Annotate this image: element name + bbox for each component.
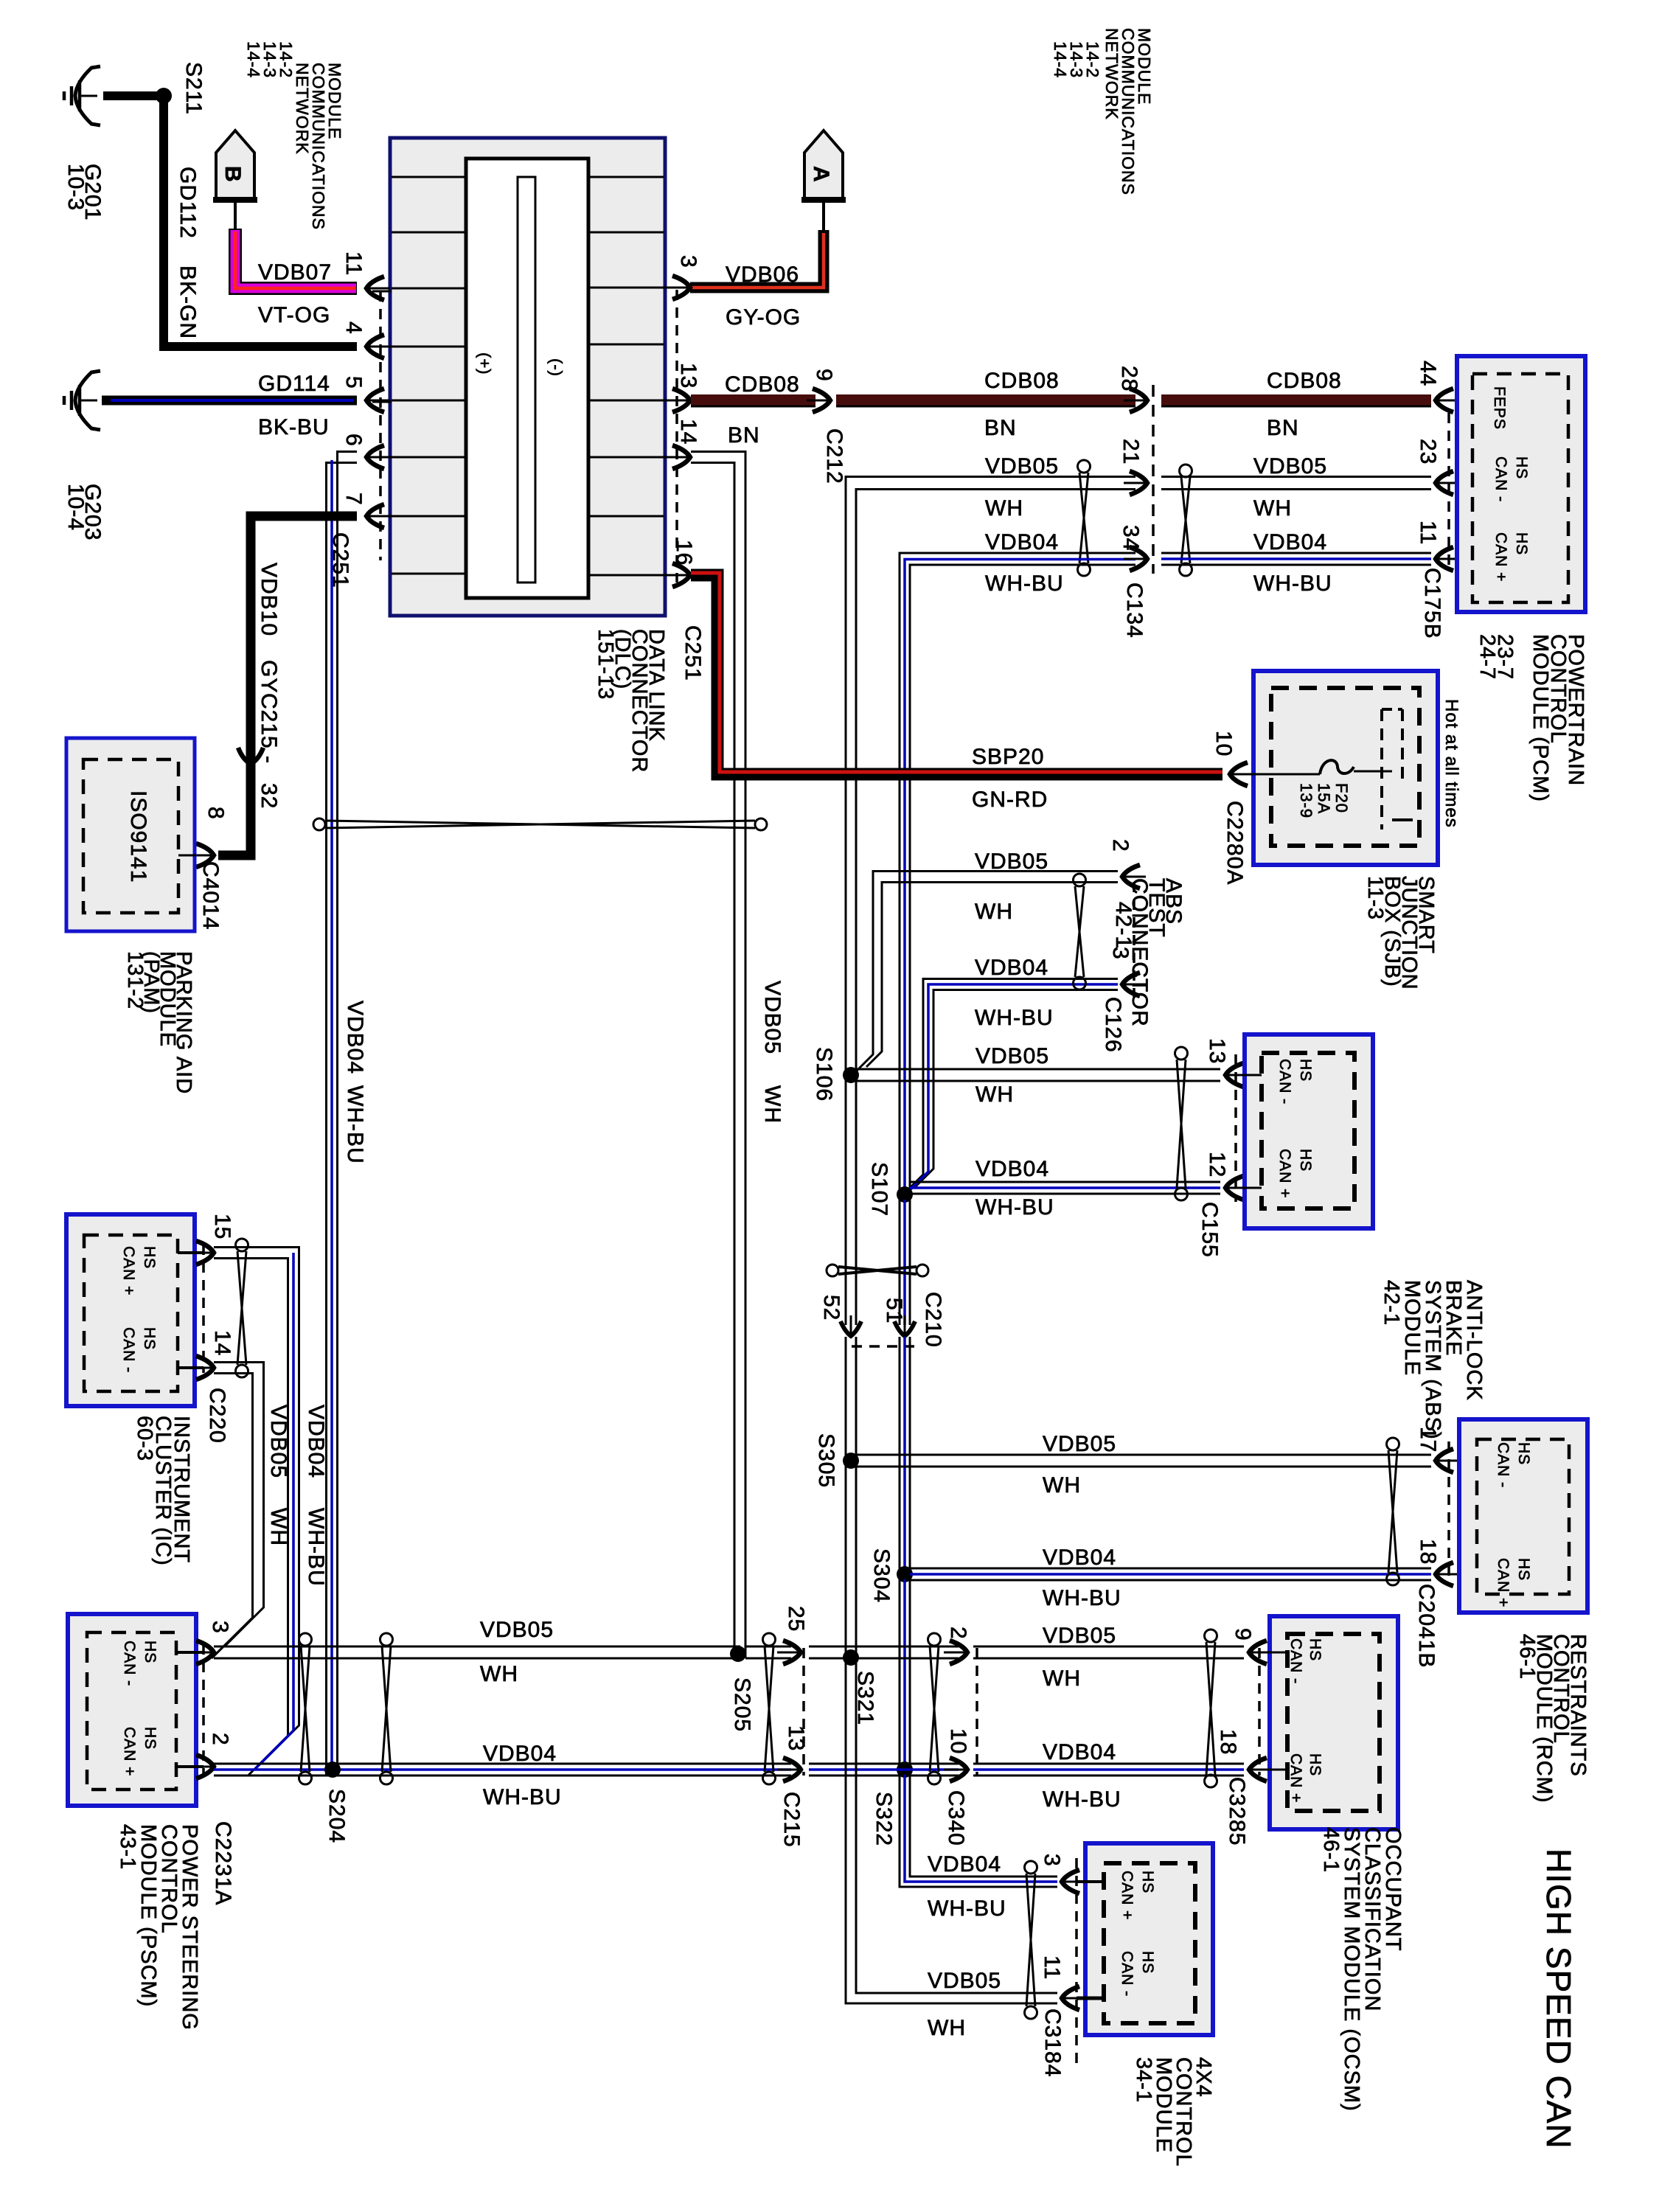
C155 dashed line: [1234, 1054, 1237, 1202]
svg-text:NETWORK: NETWORK: [1102, 28, 1121, 120]
PCM pin 11 arrow: [1436, 547, 1453, 571]
svg-text:HS: HS: [1139, 1871, 1156, 1893]
svg-text:(+): (+): [476, 352, 494, 375]
PSCM pin 3 arrow: [196, 1641, 214, 1664]
DLC internal pin rungs right: [588, 176, 664, 178]
DLC pin 14 arrow: [672, 445, 690, 469]
PCM pin 44 arrow: [1436, 389, 1453, 412]
DLC internal inner slot: [518, 177, 535, 582]
svg-text:VDB05: VDB05: [1043, 1624, 1116, 1648]
svg-text:WH-BU: WH-BU: [1043, 1586, 1121, 1610]
IC bowtie C220: [236, 1239, 248, 1251]
svg-text:HS: HS: [141, 1327, 158, 1350]
wire VDB04 WH-BU trunk DLC pin6 down to S204: [338, 452, 358, 1764]
ISO9141 pin stub: [178, 855, 196, 857]
svg-text:44: 44: [1416, 361, 1440, 386]
C210 pin 52 arrow: [841, 1321, 861, 1336]
svg-text:151-13: 151-13: [594, 629, 617, 700]
svg-text:13: 13: [1205, 1038, 1229, 1064]
svg-text:CAN -: CAN -: [1287, 1638, 1304, 1684]
C126 pin 3 arrow: [1122, 973, 1140, 996]
wire VDB05 WH to C126 pin 2: [856, 872, 1118, 1072]
wire VDB05 WH S321 down to 4x4 pin 11: [846, 1663, 1057, 2003]
svg-text:VT-OG: VT-OG: [258, 303, 330, 327]
svg-text:14: 14: [676, 419, 700, 445]
svg-text:8: 8: [204, 807, 228, 820]
svg-text:WH-BU: WH-BU: [975, 1195, 1054, 1220]
svg-text:S322: S322: [872, 1792, 896, 1846]
wire VDB05 WH S106 to C155 pin 13: [856, 1068, 1220, 1071]
svg-text:Hot at all times: Hot at all times: [1441, 699, 1461, 828]
svg-text:32: 32: [257, 783, 281, 809]
svg-text:CAN +: CAN +: [1119, 1871, 1135, 1920]
svg-text:WH: WH: [985, 496, 1023, 521]
svg-text:11: 11: [341, 251, 366, 276]
wire VDB05 trunk C S305 to S321: [845, 1466, 847, 1652]
svg-text:46-1: 46-1: [1319, 1827, 1343, 1873]
svg-text:FEPS: FEPS: [1491, 386, 1508, 430]
IC pin 15 arrow: [196, 1241, 214, 1265]
wire ground to S211: [103, 91, 164, 100]
svg-text:15: 15: [210, 1214, 234, 1239]
RCM dashed line C2041B: [1447, 1441, 1450, 1582]
PCM pin 44 stub: [1446, 400, 1472, 402]
inline connector C215-32 on VDB10: [238, 748, 263, 764]
svg-text:WH-BU: WH-BU: [343, 1085, 367, 1164]
IC pin 14 arrow: [196, 1356, 214, 1380]
wire VDB07 VT-OG to DLC pin 11: [235, 229, 357, 288]
svg-text:131-2: 131-2: [123, 951, 147, 1009]
PCM pin 23 stub: [1446, 482, 1472, 484]
C340 pin 10 arrow: [950, 1758, 967, 1781]
PSCM dashed line C2231A: [202, 1644, 205, 1775]
connector B pentagon: [216, 131, 254, 200]
C210 pin 51 arrow: [894, 1321, 915, 1336]
svg-text:(-): (-): [547, 358, 566, 377]
wire VDB05 WH trunk DLC pin14 down to S205: [691, 452, 745, 1659]
svg-text:S106: S106: [812, 1047, 836, 1102]
SJB inner dashed box: [1271, 688, 1419, 846]
4x4 dashed line C3184: [1075, 1858, 1078, 2065]
svg-text:51: 51: [882, 1298, 906, 1324]
C215 dashed line: [802, 1648, 805, 1775]
svg-text:WH: WH: [975, 1082, 1014, 1107]
svg-text:25: 25: [784, 1606, 808, 1632]
DLC pin 4 arrow: [366, 335, 384, 358]
OCSM pin 9 stub: [1259, 1652, 1287, 1654]
svg-text:GY: GY: [257, 660, 281, 693]
svg-text:ISO9141: ISO9141: [126, 790, 150, 883]
svg-text:CAN +: CAN +: [121, 1727, 138, 1776]
wire VDB04 WH-BU C215 to S322 to C340: [809, 1763, 959, 1765]
node S305: [843, 1453, 859, 1469]
DLC internal slot bar: [466, 159, 588, 598]
svg-text:C215: C215: [779, 1792, 804, 1848]
svg-text:C210: C210: [921, 1292, 945, 1348]
svg-text:10: 10: [946, 1728, 970, 1754]
node S107: [897, 1186, 913, 1203]
OCSM dashed line C3285: [1258, 1648, 1261, 1775]
svg-text:C220: C220: [205, 1388, 229, 1444]
svg-text:MODULE (PCM): MODULE (PCM): [1528, 634, 1552, 802]
node S205: [730, 1646, 746, 1662]
S205-S204 rows bowtie 2: [380, 1633, 393, 1646]
4x4 pin 11 arrow: [1062, 1986, 1079, 2010]
svg-text:5: 5: [341, 376, 366, 389]
svg-text:C2231A: C2231A: [211, 1821, 235, 1905]
stub pentagon B: [234, 203, 237, 229]
svg-text:VDB05: VDB05: [1253, 454, 1327, 479]
C134 pin 34 arrow: [1130, 547, 1147, 571]
svg-text:HS: HS: [1307, 1638, 1324, 1661]
IC pin 15 stub: [178, 1251, 204, 1254]
svg-text:WH-BU: WH-BU: [975, 1006, 1054, 1030]
svg-text:52: 52: [819, 1295, 844, 1321]
C215 pin 25 arrow: [783, 1641, 801, 1664]
svg-text:VDB04: VDB04: [975, 956, 1048, 980]
svg-text:WH: WH: [975, 900, 1013, 924]
svg-text:C126: C126: [1101, 997, 1125, 1053]
svg-text:15A: 15A: [1315, 783, 1333, 814]
RCM bowtie: [1387, 1438, 1399, 1450]
fuse F20 element: [1320, 760, 1354, 774]
inline connector C212 arrow pin 9: [813, 389, 830, 412]
svg-text:18: 18: [1416, 1539, 1440, 1565]
ISO9141 box: [66, 738, 195, 931]
ground G201: [75, 66, 100, 125]
svg-text:CAN +: CAN +: [1287, 1753, 1304, 1803]
svg-text:BK-GN: BK-GN: [175, 265, 200, 339]
wire SBP20 GN-RD DLC pin16 to SJB: [691, 575, 1222, 774]
svg-text:VDB04: VDB04: [343, 1001, 367, 1074]
svg-text:GY-OG: GY-OG: [726, 305, 801, 330]
svg-text:GD114: GD114: [258, 372, 330, 396]
svg-text:60-3: 60-3: [133, 1416, 156, 1461]
svg-text:WH: WH: [1043, 1666, 1081, 1691]
PCM inner dashed box: [1472, 374, 1568, 602]
svg-text:VDB05: VDB05: [975, 1044, 1049, 1068]
svg-text:BN: BN: [728, 423, 760, 448]
C134 pin 21 arrow: [1130, 471, 1147, 495]
svg-text:VDB05: VDB05: [760, 981, 785, 1054]
wire VDB04 trunk D S304 to S322: [899, 1579, 901, 1764]
svg-text:F20: F20: [1332, 783, 1351, 813]
svg-text:C215 -: C215 -: [257, 693, 281, 764]
S205-S204 rows bowtie 1: [299, 1633, 312, 1646]
wire VDB06 GY-OG to DLC pin 3: [690, 230, 824, 288]
svg-text:CAN +: CAN +: [1495, 1558, 1512, 1607]
svg-text:3: 3: [676, 255, 700, 268]
long twist symbol trunk A-B: [313, 818, 325, 830]
svg-text:BN: BN: [1267, 416, 1299, 440]
wire VDB05 WH PCM segment right: [1161, 476, 1431, 478]
svg-text:23: 23: [1416, 439, 1440, 465]
svg-text:CAN +: CAN +: [1276, 1149, 1293, 1198]
wire CDB08 BN segment 1: [691, 394, 815, 406]
OCSM pin 9 arrow: [1249, 1641, 1267, 1664]
svg-text:CONNECTOR: CONNECTOR: [1127, 878, 1152, 1027]
svg-text:VDB04: VDB04: [483, 1742, 557, 1766]
svg-text:VDB04: VDB04: [1253, 530, 1327, 554]
wire GD114 BK-BU ground to DLC pin 5: [102, 396, 357, 406]
svg-text:B: B: [220, 166, 245, 183]
PCM connector dashed line C175B: [1447, 413, 1450, 568]
svg-text:CAN +: CAN +: [1492, 532, 1509, 582]
4x4 bowtie: [1025, 1861, 1037, 1874]
wire VDB05 WH C215 to S321 to C340: [809, 1646, 959, 1648]
PCM pin 23 arrow: [1436, 471, 1453, 495]
svg-text:VDB04: VDB04: [1043, 1545, 1116, 1570]
svg-text:HS: HS: [1515, 1558, 1532, 1581]
svg-text:42-1: 42-1: [1380, 1280, 1403, 1326]
wire VDB05 trunk C S106 down to C210: [845, 1080, 847, 1325]
svg-text:2: 2: [208, 1733, 232, 1746]
ABS module box: [1245, 1034, 1373, 1228]
SJB pin 10 arrow: [1230, 762, 1248, 786]
C155 pin 12 arrow: [1225, 1176, 1243, 1200]
svg-text:VDB04: VDB04: [928, 1852, 1001, 1877]
svg-text:3: 3: [208, 1621, 232, 1634]
OCSM bowtie: [1205, 1630, 1217, 1642]
OCSM box: [1270, 1616, 1398, 1829]
svg-text:CAN -: CAN -: [1492, 456, 1509, 502]
svg-text:S211: S211: [181, 62, 206, 115]
C134 bowtie right: [1180, 465, 1192, 477]
svg-text:C340: C340: [944, 1790, 968, 1846]
IC box: [66, 1214, 195, 1406]
inline connector C134 arrow pin 28: [1130, 389, 1147, 412]
RCM pin 18 stub: [1446, 1573, 1477, 1576]
svg-text:6: 6: [341, 434, 366, 447]
PSCM pin 3 stub: [176, 1651, 204, 1654]
svg-text:WH: WH: [1253, 496, 1292, 521]
svg-text:14-4: 14-4: [1051, 41, 1070, 78]
RCM pin 17 arrow: [1436, 1449, 1453, 1472]
DLC pin 11 arrow: [366, 276, 384, 300]
svg-text:HS: HS: [1297, 1059, 1314, 1082]
wire VDB05 WH IC pin14 to S205 row: [214, 1363, 264, 1647]
svg-text:C4014: C4014: [198, 861, 223, 930]
svg-text:HS: HS: [1297, 1149, 1314, 1172]
stub pentagon A: [822, 203, 825, 230]
svg-text:A: A: [809, 166, 833, 183]
svg-text:HS: HS: [1515, 1442, 1532, 1465]
wire VDB05 WH C340 to OCSM pin 9: [973, 1646, 1244, 1648]
svg-text:10: 10: [1211, 731, 1236, 757]
ISO9141 inner dashed box: [83, 759, 178, 913]
4x4 inner dashed box: [1104, 1863, 1195, 2023]
wire VDB04 WH-BU S322 down to 4x4 pin 3: [900, 1775, 1057, 1887]
svg-text:CAN -: CAN -: [1276, 1059, 1293, 1105]
wire CDB08 BN segment 3: [1161, 394, 1431, 406]
ABS inner dashed box: [1262, 1053, 1354, 1208]
C340 dashed line: [975, 1648, 978, 1775]
wire VDB05 WH row S205 to C215: [745, 1646, 791, 1648]
svg-text:34-1: 34-1: [1132, 2057, 1155, 2103]
wire VDB05 WH row PSCM pin3 to S205: [214, 1646, 740, 1648]
svg-text:11: 11: [1040, 1955, 1064, 1980]
svg-text:WH: WH: [760, 1085, 785, 1124]
wire VDB04 WH-BU to C126 pin 3: [907, 979, 1118, 1192]
svg-text:C3285: C3285: [1225, 1777, 1249, 1846]
svg-text:HS: HS: [1307, 1753, 1324, 1776]
svg-text:CAN -: CAN -: [120, 1327, 137, 1373]
svg-text:SBP20: SBP20: [972, 745, 1044, 769]
svg-text:CAN +: CAN +: [120, 1246, 137, 1295]
wire VDB05 trunk C C210 to S305: [845, 1337, 847, 1455]
C155 bowtie: [1175, 1047, 1188, 1060]
svg-text:C134: C134: [1122, 582, 1147, 639]
node S106: [843, 1067, 859, 1083]
wire VDB10 GY DLC pin7 to C4014: [218, 516, 357, 855]
IC pin 14 stub: [178, 1366, 204, 1369]
wire VDB04 trunk D S107 down to C210: [899, 1200, 901, 1325]
4x4 box: [1085, 1843, 1213, 2035]
svg-text:2: 2: [946, 1627, 970, 1640]
DLC pin stubs: [372, 291, 392, 293]
SJB box: [1253, 671, 1438, 865]
svg-text:VDB05: VDB05: [480, 1618, 554, 1642]
svg-text:42-1: 42-1: [1111, 902, 1135, 949]
ISO9141 pin 8 arrow: [196, 844, 214, 867]
svg-text:C3184: C3184: [1040, 2008, 1065, 2077]
wire VDB05 WH PCM segment left: [846, 477, 1135, 1072]
PSCM pin 2 arrow: [196, 1755, 214, 1778]
node S211: [156, 88, 172, 104]
svg-text:GD112: GD112: [175, 167, 200, 239]
svg-text:CAN -: CAN -: [1119, 1951, 1135, 1997]
svg-text:S107: S107: [867, 1162, 891, 1217]
svg-text:21: 21: [1119, 439, 1143, 465]
svg-text:11: 11: [1416, 521, 1440, 545]
svg-text:12: 12: [1205, 1152, 1229, 1178]
RCM inner dashed box: [1477, 1439, 1569, 1594]
svg-text:VDB04: VDB04: [304, 1405, 328, 1478]
svg-text:HS: HS: [1513, 456, 1530, 479]
svg-text:VDB07: VDB07: [258, 260, 332, 285]
C215 pin 13 arrow: [783, 1758, 801, 1781]
svg-text:C2280A: C2280A: [1222, 801, 1247, 885]
svg-text:HS: HS: [141, 1246, 158, 1269]
svg-text:C251: C251: [681, 625, 705, 681]
OCSM pin 18 arrow: [1249, 1758, 1267, 1781]
svg-text:18: 18: [1216, 1729, 1240, 1755]
svg-text:14-4: 14-4: [244, 41, 263, 78]
C126 dashed line: [1133, 882, 1135, 997]
svg-text:4: 4: [341, 321, 366, 335]
svg-text:VDB05: VDB05: [985, 454, 1059, 479]
svg-text:VDB04: VDB04: [975, 1157, 1049, 1181]
svg-text:WH-BU: WH-BU: [1043, 1787, 1121, 1812]
wire VDB05 WH S305 to RCM pin 17: [856, 1454, 1431, 1456]
SJB bus bar dashed: [1380, 709, 1383, 829]
PSCM inner dashed box: [87, 1632, 176, 1790]
RCM pin 17 stub: [1446, 1460, 1477, 1462]
wire VDB04 WH-BU C340 to OCSM pin 18: [973, 1763, 1244, 1765]
wire VDB04 WH-BU S107 to C155 pin 12: [910, 1181, 1220, 1183]
wire VDB04 WH-BU S304 to RCM pin 18: [910, 1568, 1431, 1570]
svg-text:13-9: 13-9: [1297, 783, 1315, 818]
ground G203: [75, 371, 100, 430]
C126 pin 2 arrow: [1122, 865, 1140, 888]
svg-text:S305: S305: [814, 1433, 838, 1488]
DLC pin 5 arrow: [366, 389, 384, 412]
C134 bowtie left on VDB05/VDB04: [1078, 460, 1091, 473]
C155 pin 13 arrow: [1225, 1063, 1243, 1087]
svg-text:S205: S205: [730, 1677, 754, 1732]
DLC left connector dashed line C251: [379, 291, 382, 560]
svg-text:VDB05: VDB05: [1043, 1432, 1116, 1456]
svg-text:WH: WH: [266, 1508, 291, 1546]
svg-text:3: 3: [1040, 1854, 1064, 1867]
4x4 pin 3 stub: [1077, 1880, 1104, 1883]
svg-text:S304: S304: [869, 1548, 894, 1603]
svg-text:WH-BU: WH-BU: [1253, 571, 1332, 596]
ABS pin 12 stub: [1236, 1187, 1262, 1189]
IC dashed line C220: [202, 1245, 205, 1373]
svg-text:2: 2: [1108, 839, 1133, 852]
ABS pin 13 stub: [1236, 1074, 1262, 1077]
DLC pin 13 arrow: [672, 389, 690, 412]
svg-text:VDB04: VDB04: [985, 530, 1059, 554]
DLC pin 6 arrow: [366, 445, 384, 469]
svg-text:VDB04: VDB04: [1043, 1740, 1116, 1764]
svg-text:CAN -: CAN -: [1495, 1442, 1512, 1488]
C210 twist symbol: [827, 1265, 838, 1276]
connector A pentagon: [804, 131, 843, 200]
svg-text:VDB05: VDB05: [928, 1969, 1001, 1993]
svg-text:CDB08: CDB08: [1267, 369, 1342, 393]
RCM pin 18 arrow: [1436, 1562, 1453, 1586]
DLC data link connector box: [390, 138, 665, 616]
C340 bowtie: [928, 1633, 941, 1646]
C215 bowtie: [763, 1633, 776, 1646]
C134 dashed line: [1152, 385, 1155, 574]
svg-text:CDB08: CDB08: [984, 369, 1060, 393]
wire VDB04 WH-BU PCM segment right: [1161, 552, 1431, 554]
svg-text:WH-BU: WH-BU: [304, 1508, 328, 1587]
svg-text:WH: WH: [1043, 1473, 1081, 1498]
svg-text:34: 34: [1119, 525, 1143, 551]
PCM pin 11 stub: [1446, 558, 1472, 560]
DLC pin 16 arrow: [672, 563, 690, 587]
svg-text:C175B: C175B: [1420, 568, 1444, 639]
svg-text:BK-BU: BK-BU: [258, 415, 330, 439]
node S304: [897, 1566, 913, 1582]
svg-text:28: 28: [1117, 366, 1141, 392]
C340 pin 2 arrow: [950, 1641, 967, 1664]
DLC pin 3 arrow: [672, 276, 690, 299]
svg-text:9: 9: [812, 369, 836, 382]
svg-text:HS: HS: [142, 1641, 159, 1663]
PSCM box: [68, 1614, 196, 1806]
node S321: [843, 1649, 859, 1666]
node S322: [897, 1761, 913, 1778]
svg-text:HIGH SPEED CAN: HIGH SPEED CAN: [1540, 1848, 1578, 2149]
svg-text:46-1: 46-1: [1515, 1634, 1539, 1680]
svg-text:WH: WH: [928, 2016, 966, 2040]
svg-text:C212: C212: [822, 428, 846, 484]
fuse F20 wire lead: [1240, 773, 1320, 776]
svg-text:WH-BU: WH-BU: [483, 1785, 562, 1809]
svg-text:VDB05: VDB05: [266, 1405, 291, 1478]
svg-text:HS: HS: [142, 1727, 159, 1750]
OCSM pin 18 stub: [1259, 1769, 1287, 1771]
RCM box: [1459, 1419, 1587, 1613]
DLC right connector dashed line C251: [675, 290, 678, 582]
svg-text:BN: BN: [984, 416, 1017, 440]
wire VDB04 WH-BU PCM segment left: [900, 553, 1135, 1191]
